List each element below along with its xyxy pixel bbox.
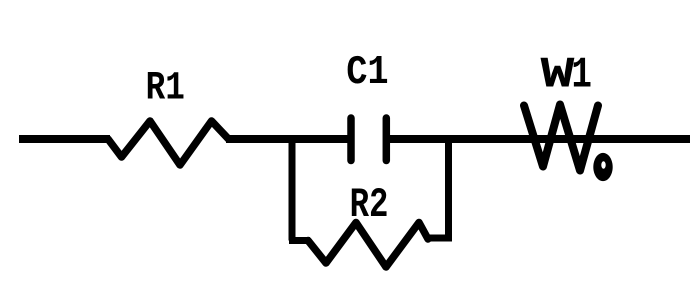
svg-text:W: W — [541, 51, 576, 100]
svg-text:1: 1 — [571, 50, 592, 100]
wire: bottom-left horizontal (node A to R2) — [289, 237, 310, 244]
resistor R1 — [108, 121, 229, 165]
svg-text:R1: R1 — [146, 66, 185, 111]
capacitor C1 — [351, 118, 386, 161]
wire: node B to warburg W1 — [450, 135, 530, 143]
svg-text:R2: R2 — [350, 182, 389, 229]
wire: R1 to capacitor C1 (through node A) — [226, 135, 348, 143]
svg-text:C1: C1 — [346, 49, 388, 96]
warburg element W1 — [524, 105, 613, 182]
wire: node A vertical branch (down from main line) — [289, 137, 296, 241]
wire: node B vertical branch (down from main line) — [445, 137, 452, 238]
wire: right terminal lead — [608, 135, 690, 143]
label R2 — [350, 182, 389, 229]
resistor R2 — [308, 223, 428, 268]
wire: C1 to node B — [390, 135, 450, 143]
label W1 — [541, 50, 592, 101]
label C1 — [346, 49, 388, 96]
wire: left terminal lead — [19, 135, 110, 143]
wire: bottom-right horizontal (R2 to node B) — [427, 235, 452, 242]
label R1 — [146, 66, 185, 111]
